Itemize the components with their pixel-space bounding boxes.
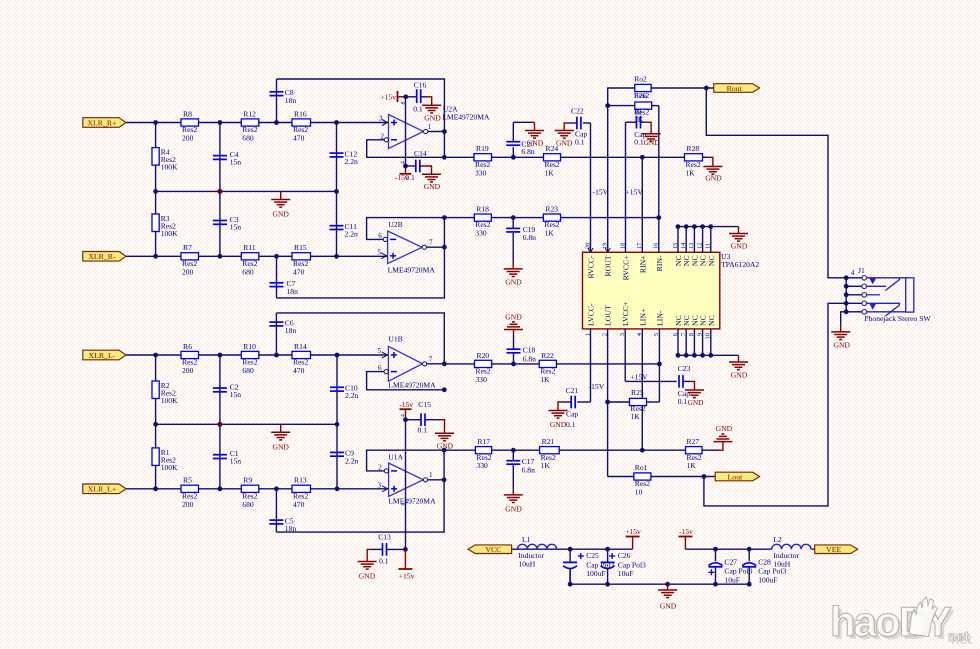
svg-text:200: 200: [182, 366, 194, 375]
svg-text:R5: R5: [183, 476, 192, 485]
wire U2A pin2 loop: [367, 140, 445, 158]
svg-text:GND: GND: [359, 572, 376, 581]
svg-text:680: 680: [242, 500, 254, 509]
svg-text:6.8n: 6.8n: [521, 147, 534, 156]
resistor R21: [540, 437, 560, 470]
svg-text:R9: R9: [243, 476, 252, 485]
ground C23: [683, 381, 704, 406]
wire top NC pins: [676, 224, 739, 252]
capacitor C8: [270, 88, 297, 105]
svg-text:LIN-: LIN-: [655, 310, 664, 326]
inductor L2: [772, 535, 811, 569]
svg-text:3: 3: [379, 114, 383, 122]
svg-text:R20: R20: [477, 351, 490, 360]
resistor R25: [630, 388, 647, 421]
svg-text:680: 680: [242, 366, 254, 375]
resistor R4: [152, 148, 178, 172]
svg-text:XLR_R-: XLR_R-: [88, 252, 116, 261]
svg-text:C21: C21: [566, 386, 579, 395]
capacitor C4: [213, 150, 241, 167]
svg-text:2.2n: 2.2n: [345, 157, 358, 166]
port VCC: [468, 545, 512, 554]
wire XLR_R- rail: [126, 254, 388, 259]
svg-text:U1A: U1A: [388, 452, 403, 461]
op-amp U1A: [377, 452, 436, 505]
wire C15 row: [406, 419, 422, 421]
svg-text:GND: GND: [424, 182, 441, 191]
ground mid bus right channel: [271, 191, 290, 218]
svg-text:Inductor: Inductor: [518, 551, 544, 560]
svg-text:GND: GND: [716, 424, 733, 433]
svg-text:C15: C15: [418, 400, 431, 409]
power -15v rail: [678, 527, 693, 549]
svg-text:1K: 1K: [541, 461, 551, 470]
svg-text:RIN+: RIN+: [638, 255, 647, 273]
svg-text:RVCC-: RVCC-: [587, 255, 596, 279]
net label -15V top: [593, 188, 609, 197]
resistor R19: [474, 144, 492, 177]
port VEE: [815, 545, 858, 554]
svg-text:200: 200: [182, 267, 194, 276]
wire power bottom rail: [568, 569, 752, 587]
net label +15V bottom: [630, 372, 648, 381]
svg-text:GND: GND: [556, 138, 573, 147]
capacitor C1: [213, 449, 241, 466]
svg-text:GND: GND: [272, 210, 289, 219]
svg-text:15n: 15n: [230, 390, 242, 399]
svg-text:RVCC+: RVCC+: [622, 255, 631, 281]
pin 20 wire: [588, 123, 593, 252]
wire J1 bus: [844, 275, 862, 314]
svg-text:0.1: 0.1: [566, 420, 576, 429]
junction 4-way C2/C1: [217, 422, 222, 427]
svg-text:0.1: 0.1: [413, 104, 423, 113]
wire +15v to C16: [402, 94, 416, 99]
svg-text:R22: R22: [541, 351, 554, 360]
capacitor C6: [269, 319, 296, 336]
wire R28 to ground: [703, 156, 709, 158]
wire XLR_L- rail: [126, 353, 388, 358]
wire Rout to jack: [706, 88, 846, 278]
svg-text:1: 1: [428, 123, 432, 131]
svg-text:LVCC-: LVCC-: [587, 303, 596, 326]
resistor R10: [241, 342, 258, 375]
svg-text:200: 200: [182, 500, 194, 509]
svg-text:10: 10: [635, 487, 643, 496]
ground C19: [504, 232, 523, 287]
wire C12 column: [336, 123, 338, 192]
resistor R20: [475, 351, 492, 384]
svg-text:C13: C13: [378, 532, 391, 541]
svg-text:C28: C28: [758, 557, 771, 566]
ground C14: [420, 166, 441, 191]
svg-text:C22: C22: [571, 107, 584, 116]
svg-text:LIN+: LIN+: [638, 308, 647, 326]
svg-text:LVCC+: LVCC+: [621, 301, 630, 326]
ground C20: [513, 122, 544, 147]
svg-text:100K: 100K: [161, 229, 178, 238]
pin 2 wire: [607, 329, 609, 477]
port XLR_R+: [83, 118, 126, 128]
capacitor C27: [708, 549, 752, 584]
capacitor C9: [330, 449, 358, 466]
ground top NC: [729, 227, 748, 251]
wire C6 column: [275, 313, 277, 355]
capacitor C14: [405, 149, 427, 182]
resistor R16: [292, 109, 311, 142]
resistor Ro2: [634, 74, 651, 100]
power -15v U1A: [399, 400, 413, 422]
port XLR_L-: [83, 350, 126, 360]
svg-text:GND: GND: [505, 505, 522, 514]
wire R26 row: [605, 103, 659, 108]
ground C24: [641, 122, 661, 147]
ground C22: [555, 123, 577, 147]
wire U1B top loop rail: [276, 313, 444, 364]
svg-text:470: 470: [293, 366, 305, 375]
svg-text:5: 5: [377, 347, 381, 355]
resistor R7: [181, 243, 199, 276]
wire R3 column: [155, 191, 157, 256]
svg-text:1K: 1K: [630, 412, 640, 421]
svg-text:5: 5: [377, 248, 381, 256]
svg-text:1: 1: [429, 471, 433, 479]
svg-text:330: 330: [475, 168, 487, 177]
svg-text:LME49720MA: LME49720MA: [388, 497, 436, 506]
svg-text:R23: R23: [545, 205, 558, 214]
svg-text:J1: J1: [858, 266, 865, 275]
ground mid bus left channel: [271, 424, 290, 451]
svg-text:2: 2: [380, 132, 384, 140]
svg-text:GND: GND: [505, 312, 522, 321]
svg-text:GND: GND: [687, 398, 704, 407]
svg-text:1K: 1K: [687, 461, 697, 470]
svg-text:GND: GND: [731, 370, 748, 379]
svg-text:+15v: +15v: [380, 93, 396, 102]
svg-text:680: 680: [242, 134, 254, 143]
svg-text:470: 470: [293, 500, 305, 509]
pin 5 wire: [658, 329, 660, 402]
svg-text:100uF: 100uF: [586, 569, 605, 578]
svg-text:18n: 18n: [285, 326, 297, 335]
svg-text:2.2n: 2.2n: [345, 391, 358, 400]
svg-text:0.1: 0.1: [634, 138, 644, 147]
wire mid bus left channel: [153, 422, 339, 427]
svg-text:R10: R10: [243, 342, 256, 351]
capacitor C2: [213, 382, 241, 399]
svg-text:Ro2: Ro2: [634, 74, 647, 83]
svg-text:LME49720MA: LME49720MA: [442, 113, 490, 122]
svg-text:15n: 15n: [230, 223, 242, 232]
svg-text:2: 2: [378, 464, 382, 472]
net label +15V top: [626, 188, 644, 197]
svg-text:R18: R18: [476, 205, 489, 214]
ground C21: [549, 402, 572, 429]
pin 8 U2A: [401, 102, 407, 105]
svg-text:GND: GND: [424, 113, 441, 122]
svg-text:10uH: 10uH: [518, 560, 535, 569]
wire bottom NC pins: [676, 329, 739, 358]
svg-text:NC: NC: [707, 255, 716, 266]
wire U1B pin6 loop: [367, 372, 445, 390]
ground C13: [358, 549, 383, 580]
ground C18 inverted: [504, 312, 523, 349]
resistor R11: [241, 243, 258, 276]
resistor R9: [241, 476, 258, 509]
svg-text:Ro1: Ro1: [635, 463, 648, 472]
svg-text:VCC: VCC: [485, 545, 501, 554]
power +15v U1A: [398, 549, 414, 580]
svg-text:R11: R11: [243, 243, 256, 252]
svg-text:R17: R17: [477, 437, 490, 446]
svg-text:XLR_R+: XLR_R+: [87, 118, 117, 127]
svg-text:6.8n: 6.8n: [523, 233, 536, 242]
ground R28: [703, 157, 722, 182]
svg-text:R21: R21: [542, 437, 555, 446]
svg-text:+15V: +15V: [626, 188, 644, 197]
power -15v U2A: [395, 164, 412, 182]
svg-text:100uF: 100uF: [758, 575, 777, 584]
svg-text:470: 470: [293, 134, 305, 143]
svg-text:R13: R13: [294, 476, 307, 485]
svg-text:XLR_L-: XLR_L-: [88, 351, 115, 360]
wire RIN+ rail R19/R24/R28: [444, 155, 684, 160]
svg-text:1K: 1K: [686, 168, 696, 177]
capacitor C21: [566, 386, 591, 429]
svg-text:LOUT: LOUT: [604, 305, 613, 326]
wire C13 row: [387, 547, 408, 552]
wire R27 to ground: [702, 449, 718, 451]
svg-text:100K: 100K: [161, 163, 178, 172]
svg-text:NC: NC: [707, 315, 716, 326]
svg-text:R19: R19: [476, 144, 489, 153]
svg-text:1K: 1K: [545, 168, 555, 177]
wire C5 column: [275, 489, 277, 532]
svg-text:GND: GND: [833, 341, 850, 350]
svg-text:Cap Pol3: Cap Pol3: [724, 567, 752, 576]
svg-text:R14: R14: [294, 342, 307, 351]
capacitor C13: [378, 532, 391, 565]
svg-text:Cap Pol3: Cap Pol3: [618, 560, 646, 569]
capacitor C28: [742, 549, 786, 584]
resistor R26: [634, 102, 652, 124]
svg-text:4: 4: [401, 161, 407, 164]
svg-text:0.1: 0.1: [418, 426, 428, 435]
capacitor C18: [507, 346, 537, 364]
svg-text:R7: R7: [183, 243, 192, 252]
resistor R12: [241, 109, 258, 142]
capacitor C24: [626, 116, 647, 147]
svg-text:2.2n: 2.2n: [345, 230, 358, 239]
wire C4 column: [219, 123, 221, 192]
svg-text:L1: L1: [522, 535, 531, 544]
svg-text:200: 200: [182, 134, 194, 143]
svg-text:LME49720MA: LME49720MA: [388, 380, 436, 389]
resistor R3: [152, 214, 178, 238]
wire C10 column: [336, 355, 338, 424]
svg-text:-15v: -15v: [679, 527, 693, 536]
svg-text:0.1: 0.1: [678, 397, 688, 406]
svg-text:10uF: 10uF: [724, 575, 740, 584]
capacitor C23: [625, 364, 690, 406]
wire U1A power vertical: [405, 420, 407, 550]
svg-text:18n: 18n: [285, 96, 297, 105]
pin 4 U1A: [401, 414, 407, 417]
wire Ro2 row: [611, 86, 714, 91]
svg-text:100K: 100K: [161, 463, 178, 472]
svg-text:15n: 15n: [230, 158, 242, 167]
svg-text:R27: R27: [687, 437, 700, 446]
pin 1 wire: [590, 329, 592, 402]
svg-text:470: 470: [293, 267, 305, 276]
ground C17: [504, 464, 523, 513]
power +15v rail: [625, 527, 641, 549]
capacitor C7: [270, 279, 299, 296]
svg-text:7: 7: [429, 355, 433, 363]
svg-text:-15V: -15V: [589, 382, 605, 391]
svg-text:C26: C26: [618, 551, 631, 560]
svg-text:6.8n: 6.8n: [523, 355, 536, 364]
svg-text:GND: GND: [731, 242, 748, 251]
svg-text:Inductor: Inductor: [773, 551, 799, 560]
resistor R23: [543, 205, 560, 238]
wire C1 column: [219, 424, 221, 489]
capacitor C16: [413, 81, 426, 114]
svg-text:6.8n: 6.8n: [522, 466, 535, 475]
svg-text:4: 4: [851, 269, 855, 277]
capacitor C3: [213, 215, 241, 232]
svg-text:15n: 15n: [230, 457, 242, 466]
watermark haoDIY.net: [830, 597, 972, 648]
svg-text:R26: R26: [634, 91, 647, 100]
capacitor C20: [506, 140, 535, 158]
ground bottom NC: [729, 355, 748, 379]
wire LIN- rail R20/R22: [444, 362, 662, 367]
capacitor C10: [330, 384, 358, 401]
resistor R15: [292, 243, 311, 276]
wire C14 row: [406, 165, 416, 167]
port XLR_R-: [83, 252, 126, 262]
wire C7 column: [276, 256, 278, 298]
resistor R8: [181, 109, 199, 142]
svg-text:1K: 1K: [544, 229, 554, 238]
svg-text:ROUT: ROUT: [604, 255, 613, 276]
svg-text:0.1: 0.1: [575, 137, 585, 146]
wire XLR_R+ rail: [126, 120, 389, 125]
svg-text:R15: R15: [294, 243, 307, 252]
wire Ro2 left drop: [608, 88, 611, 106]
svg-text:10uF: 10uF: [618, 569, 634, 578]
wire VEE rail: [685, 547, 814, 552]
pin 18 wire: [625, 122, 627, 252]
wire U2B output: [426, 215, 446, 249]
svg-text:1K: 1K: [540, 375, 550, 384]
capacitor C17: [506, 450, 535, 474]
svg-text:2.2n: 2.2n: [345, 456, 358, 465]
resistor R24: [544, 144, 561, 177]
resistor Ro1: [634, 463, 651, 496]
resistor R22: [539, 351, 556, 384]
port Rout: [714, 84, 760, 93]
port XLR_L+: [83, 484, 126, 494]
pin 8 U1A: [401, 503, 407, 506]
wire C8 column: [276, 79, 278, 123]
svg-text:XLR_L+: XLR_L+: [88, 485, 117, 494]
pin 4 wire: [641, 329, 643, 450]
svg-text:C23: C23: [678, 364, 691, 373]
wire U2A power vertical: [405, 97, 407, 166]
svg-text:R16: R16: [294, 109, 307, 118]
inductor L1: [518, 535, 557, 569]
svg-text:8: 8: [401, 102, 407, 105]
svg-text:10uH: 10uH: [773, 560, 790, 569]
wire VCC rail: [512, 547, 633, 552]
ground J1: [831, 312, 850, 350]
pin 3 wire: [624, 329, 626, 382]
svg-text:Phonejack Stereo SW: Phonejack Stereo SW: [864, 314, 931, 323]
op-amp U2B: [377, 220, 435, 274]
svg-text:6: 6: [378, 364, 382, 372]
svg-text:LME49720MA: LME49720MA: [388, 265, 436, 274]
svg-text:U2B: U2B: [388, 220, 402, 229]
wire R2 column: [155, 355, 157, 424]
svg-text:18n: 18n: [287, 287, 299, 296]
resistor R1: [152, 448, 178, 472]
op-amp U1B: [377, 335, 436, 390]
svg-text:L2: L2: [773, 535, 782, 544]
svg-text:GND: GND: [272, 442, 289, 451]
svg-text:TPA6120A2: TPA6120A2: [721, 260, 759, 269]
ground C15: [425, 420, 454, 451]
wire mid bus right channel: [153, 189, 339, 194]
wire U1B output: [427, 361, 447, 392]
pin 17 wire: [641, 157, 643, 252]
wire C3 column: [219, 191, 221, 256]
svg-text:C27: C27: [724, 557, 737, 566]
svg-text:GND: GND: [660, 601, 677, 610]
svg-text:100K: 100K: [161, 396, 178, 405]
capacitor C25: [563, 549, 614, 584]
wire U1A bottom loop rail: [276, 450, 444, 532]
svg-text:GND: GND: [705, 173, 722, 182]
svg-text:net: net: [948, 628, 969, 644]
svg-text:18n: 18n: [285, 524, 297, 533]
svg-text:GND: GND: [437, 442, 454, 451]
svg-text:7: 7: [429, 238, 433, 246]
resistor R5: [181, 476, 199, 509]
svg-text:-15v: -15v: [399, 400, 413, 409]
wire U2B bottom loop rail: [277, 218, 445, 298]
wire U2A top feedback rail: [277, 79, 445, 157]
wire U1A output: [428, 448, 447, 482]
pin 19 wire: [605, 106, 610, 253]
wire XLR_L+ rail: [126, 486, 389, 491]
ground power section: [658, 584, 677, 610]
resistor R18: [474, 205, 491, 238]
svg-text:R6: R6: [183, 342, 192, 351]
IC U3 TPA6120A2: [583, 243, 760, 339]
resistor R6: [181, 342, 199, 375]
wire R26 to RIN- vertical: [658, 106, 660, 218]
wire U2B pin6 loop: [367, 218, 445, 240]
junction 4-way C4/C3: [217, 189, 222, 194]
net label -15V bottom: [589, 382, 605, 391]
ground C16: [422, 97, 441, 123]
svg-text:Cap: Cap: [566, 410, 578, 419]
resistor R28: [685, 144, 703, 177]
svg-text:3: 3: [377, 482, 381, 490]
resistor R27: [686, 437, 703, 470]
